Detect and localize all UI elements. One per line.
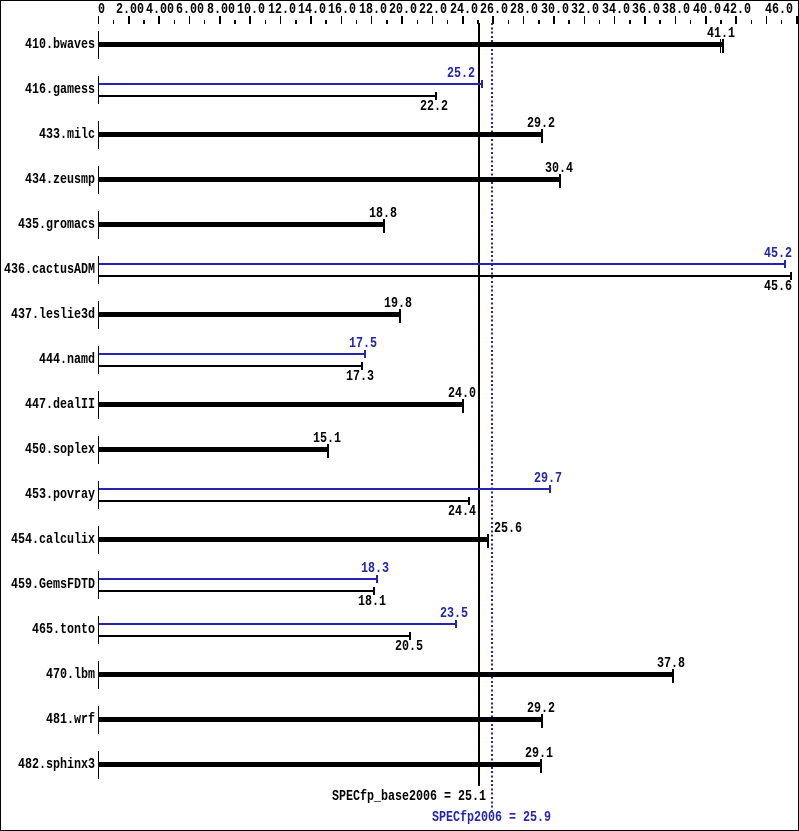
row label 437.leslie3d — [11, 308, 95, 321]
base bar 437.leslie3d = 19.8 — [99, 312, 399, 317]
base bar end tick 447.dealII — [462, 399, 464, 413]
minor tick 5 — [174, 20, 176, 24]
row label 482.sphinx3 — [18, 758, 95, 771]
base bar end tick 435.gromacs — [383, 219, 385, 233]
x-axis label 42.0 — [723, 3, 751, 16]
x-axis label 18.0 — [359, 3, 387, 16]
major tick 18.0 — [371, 16, 373, 24]
base bar end tick 436.cactusADM — [790, 272, 792, 280]
y-axis segment 470.lbm — [98, 661, 100, 689]
x-axis label 10.0 — [237, 3, 265, 16]
minor tick 3 — [143, 20, 145, 24]
base bar end tick 465.tonto — [409, 632, 411, 640]
base value label 416.gamess — [420, 100, 448, 113]
summary SPECfp_base2006 — [332, 790, 486, 803]
x-axis label 26.0 — [480, 3, 508, 16]
base value label 433.milc — [527, 117, 555, 130]
base bar end tick 416.gamess — [435, 92, 437, 100]
base bar 444.namd = 17.3 — [99, 365, 361, 367]
major tick 16.0 — [341, 16, 343, 24]
major tick 26.0 — [492, 16, 494, 24]
minor tick 35 — [629, 20, 631, 24]
minor tick 1 — [113, 20, 115, 24]
y-axis segment 444.namd — [98, 346, 100, 374]
base bar 465.tonto = 20.5 — [99, 635, 410, 637]
y-axis segment 410.bwaves — [98, 31, 100, 59]
base bar end tick 481.wrf — [541, 714, 543, 728]
peak bar 465.tonto = 23.5 — [99, 623, 455, 625]
minor tick 13 — [295, 20, 297, 24]
major tick 42.0 — [735, 16, 737, 24]
x-axis label 36.0 — [632, 3, 660, 16]
base value label 437.leslie3d — [384, 297, 412, 310]
peak bar 444.namd = 17.5 — [99, 353, 364, 355]
x-axis label 12.0 — [268, 3, 296, 16]
y-axis segment 436.cactusADM — [98, 256, 100, 284]
peak value label 436.cactusADM — [764, 247, 792, 260]
row label 434.zeusmp — [25, 173, 95, 186]
row label 450.soplex — [25, 443, 95, 456]
y-axis segment 465.tonto — [98, 616, 100, 644]
base bar end tick 453.povray — [468, 497, 470, 505]
x-axis label 14.0 — [298, 3, 326, 16]
base value label 453.povray — [448, 505, 476, 518]
row label 435.gromacs — [18, 218, 95, 231]
x-axis label 22.0 — [419, 3, 447, 16]
minor tick 11 — [265, 20, 267, 24]
base value label 481.wrf — [527, 702, 555, 715]
row label 470.lbm — [46, 668, 95, 681]
major tick 44.0 — [766, 16, 768, 24]
row label 465.tonto — [32, 623, 95, 636]
minor tick 19 — [386, 20, 388, 24]
peak bar end tick 459.GemsFDTD — [376, 575, 378, 583]
y-axis segment 435.gromacs — [98, 211, 100, 239]
x-axis label 8.00 — [207, 3, 235, 16]
minor tick 21 — [417, 20, 419, 24]
major tick 38.0 — [675, 16, 677, 24]
base bar end tick 444.namd — [361, 362, 363, 370]
y-axis segment 447.dealII — [98, 391, 100, 419]
row label 444.namd — [39, 353, 95, 366]
minor tick 45 — [781, 20, 783, 24]
x-axis label 28.0 — [510, 3, 538, 16]
base bar 453.povray = 24.4 — [99, 500, 469, 502]
major tick 28.0 — [523, 16, 525, 24]
base bar 436.cactusADM = 45.6 — [99, 275, 791, 277]
base bar 470.lbm = 37.8 — [99, 672, 672, 677]
major tick 22.0 — [432, 16, 434, 24]
minor tick 29 — [538, 20, 540, 24]
row label 410.bwaves — [25, 38, 95, 51]
base bar 459.GemsFDTD = 18.1 — [99, 590, 373, 592]
base value label 454.calculix — [494, 522, 522, 535]
base value label 450.soplex — [313, 432, 341, 445]
minor tick 43 — [751, 20, 753, 24]
major tick 4.00 — [158, 16, 160, 24]
major tick 6.00 — [189, 16, 191, 24]
base value label 435.gromacs — [369, 207, 397, 220]
x-axis label 0 — [98, 3, 105, 16]
x-axis label 30.0 — [541, 3, 569, 16]
peak bar end tick 465.tonto — [455, 620, 457, 628]
x-axis label 4.00 — [146, 3, 174, 16]
x-axis label 24.0 — [450, 3, 478, 16]
extra run tick 410.bwaves — [720, 39, 721, 53]
major tick 8.00 — [219, 16, 221, 24]
y-axis segment 454.calculix — [98, 526, 100, 554]
minor tick 33 — [599, 20, 601, 24]
base value label 434.zeusmp — [545, 162, 573, 175]
major tick 10.0 — [249, 16, 251, 24]
peak value label 465.tonto — [440, 607, 468, 620]
row label 433.milc — [39, 128, 95, 141]
base bar end tick 434.zeusmp — [559, 174, 561, 188]
x-axis label 40.0 — [693, 3, 721, 16]
base bar end tick 437.leslie3d — [399, 309, 401, 323]
minor tick 23 — [447, 20, 449, 24]
x-axis label 2.00 — [116, 3, 144, 16]
x-axis label 20.0 — [389, 3, 417, 16]
y-axis segment 481.wrf — [98, 706, 100, 734]
base bar end tick 470.lbm — [672, 669, 674, 683]
peak mean dotted reference line 25.9 — [491, 23, 493, 811]
peak value label 444.namd — [349, 337, 377, 350]
base bar 481.wrf = 29.2 — [99, 717, 542, 722]
major tick 34.0 — [614, 16, 616, 24]
y-axis segment 453.povray — [98, 481, 100, 509]
summary SPECfp2006 — [432, 811, 551, 824]
major tick 40.0 — [705, 16, 707, 24]
major tick 32.0 — [584, 16, 586, 24]
x-axis label 46.0 — [765, 3, 793, 16]
minor tick 27 — [508, 20, 510, 24]
row label 436.cactusADM — [4, 263, 95, 276]
minor tick 37 — [659, 20, 661, 24]
major tick 24.0 — [462, 16, 464, 24]
y-axis segment 437.leslie3d — [98, 301, 100, 329]
base bar end tick 454.calculix — [487, 534, 489, 548]
x-axis label 6.00 — [176, 3, 204, 16]
base value label 436.cactusADM — [764, 280, 792, 293]
peak bar 436.cactusADM = 45.2 — [99, 263, 785, 265]
major tick 12.0 — [280, 16, 282, 24]
base bar 410.bwaves = 41.1 — [99, 42, 722, 47]
base value label 465.tonto — [395, 640, 423, 653]
base bar 433.milc = 29.2 — [99, 132, 542, 137]
base bar 450.soplex = 15.1 — [99, 447, 328, 452]
x-axis label 32.0 — [571, 3, 599, 16]
x-axis label 34.0 — [602, 3, 630, 16]
y-axis segment 433.milc — [98, 121, 100, 149]
base value label 482.sphinx3 — [525, 747, 553, 760]
base bar 416.gamess = 22.2 — [99, 95, 435, 97]
x-axis label 38.0 — [662, 3, 690, 16]
row label 416.gamess — [25, 83, 95, 96]
base value label 444.namd — [346, 370, 374, 383]
base bar end tick 433.milc — [541, 129, 543, 143]
y-axis segment 434.zeusmp — [98, 166, 100, 194]
base value label 410.bwaves — [707, 27, 735, 40]
major tick 36.0 — [644, 16, 646, 24]
row label 453.povray — [25, 488, 95, 501]
peak bar 416.gamess = 25.2 — [99, 83, 481, 85]
minor tick 41 — [720, 20, 722, 24]
major tick 2.00 — [128, 16, 130, 24]
peak value label 453.povray — [534, 472, 562, 485]
base value label 447.dealII — [448, 387, 476, 400]
peak value label 416.gamess — [447, 67, 475, 80]
peak bar end tick 453.povray — [549, 485, 551, 493]
major tick 30.0 — [553, 16, 555, 24]
row label 459.GemsFDTD — [11, 578, 95, 591]
base bar 447.dealII = 24.0 — [99, 402, 463, 407]
peak value label 459.GemsFDTD — [361, 562, 389, 575]
minor tick 9 — [234, 20, 236, 24]
minor tick 39 — [690, 20, 692, 24]
base bar end tick 410.bwaves — [722, 39, 724, 53]
peak bar end tick 436.cactusADM — [784, 260, 786, 268]
base bar end tick 482.sphinx3 — [540, 759, 542, 773]
base mean reference line 25.1 — [478, 23, 480, 786]
base bar 454.calculix = 25.6 — [99, 537, 487, 542]
base bar 435.gromacs = 18.8 — [99, 222, 384, 227]
minor tick 7 — [204, 20, 206, 24]
y-axis segment 482.sphinx3 — [98, 751, 100, 779]
peak bar end tick 416.gamess — [481, 80, 483, 88]
row label 454.calculix — [11, 533, 95, 546]
minor tick 15 — [325, 20, 327, 24]
minor tick 31 — [568, 20, 570, 24]
minor tick 25 — [477, 20, 479, 24]
base bar end tick 459.GemsFDTD — [373, 587, 375, 595]
peak bar end tick 444.namd — [364, 350, 366, 358]
row label 481.wrf — [46, 713, 95, 726]
major tick 46.0 — [796, 16, 798, 24]
y-axis segment 416.gamess — [98, 76, 100, 104]
major tick 0 — [98, 16, 100, 24]
major tick 20.0 — [401, 16, 403, 24]
base bar 434.zeusmp = 30.4 — [99, 177, 560, 182]
major tick 14.0 — [310, 16, 312, 24]
peak bar 453.povray = 29.7 — [99, 488, 549, 490]
y-axis segment 459.GemsFDTD — [98, 571, 100, 599]
base bar end tick 450.soplex — [327, 444, 329, 458]
base value label 459.GemsFDTD — [358, 595, 386, 608]
minor tick 17 — [356, 20, 358, 24]
base bar 482.sphinx3 = 29.1 — [99, 762, 540, 767]
y-axis segment 450.soplex — [98, 436, 100, 464]
peak bar 459.GemsFDTD = 18.3 — [99, 578, 376, 580]
base value label 470.lbm — [657, 657, 685, 670]
x-axis label 16.0 — [328, 3, 356, 16]
row label 447.dealII — [25, 398, 95, 411]
